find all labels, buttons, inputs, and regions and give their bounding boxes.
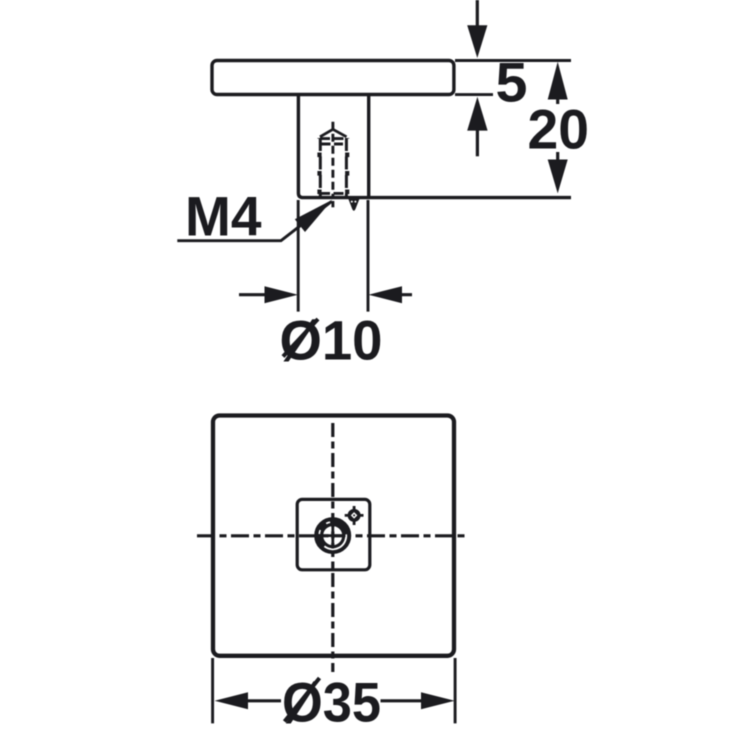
threaded hole ring bbox=[319, 522, 347, 550]
hub square outline bbox=[297, 499, 370, 569]
leader line for M4 bbox=[177, 202, 331, 241]
horizontal centerline of square bbox=[197, 534, 469, 537]
extension line top of plate bbox=[455, 59, 571, 62]
20 dim upper arrow (pointing up) bbox=[548, 62, 568, 104]
leader arrowhead bbox=[295, 200, 333, 232]
svg-text:5: 5 bbox=[496, 51, 528, 114]
Ø10 left arrow (pointing right) bbox=[239, 286, 298, 303]
thread center line tail below stem bbox=[331, 201, 334, 207]
Ø10 right arrow (pointing left) bbox=[369, 286, 413, 303]
thread left dashed line bbox=[319, 138, 322, 196]
stem outline (side view) bbox=[298, 95, 571, 198]
thread bottom line bbox=[320, 192, 347, 195]
top dimension arrow line (5 dim, upper) bbox=[467, 0, 487, 58]
Ø35 right extension line bbox=[454, 658, 457, 723]
thread right tick bumps bbox=[345, 138, 349, 196]
thread right dashed line bbox=[345, 138, 348, 196]
thread top line 2 bbox=[322, 143, 346, 146]
square plate outline (bottom view) bbox=[213, 416, 454, 656]
Ø10 right extension line bbox=[367, 200, 370, 312]
stem right edge bbox=[367, 95, 370, 198]
small screw target symbol bbox=[345, 506, 364, 525]
thread center line (dashed vertical) bbox=[331, 122, 334, 197]
drill point white specks bbox=[351, 201, 353, 203]
vertical centerline of square bbox=[331, 423, 334, 672]
thread left tick bumps bbox=[317, 138, 321, 196]
svg-text:M4: M4 bbox=[185, 184, 262, 247]
svg-text:Ø10: Ø10 bbox=[280, 309, 383, 372]
svg-text:20: 20 bbox=[528, 98, 590, 161]
cross mark in hole bbox=[321, 523, 346, 549]
drill point V below stem bbox=[348, 199, 359, 211]
O-slash extension for Ø35 bbox=[285, 678, 320, 722]
thread top line 1 bbox=[320, 137, 347, 140]
Ø35 left arrow (pointing left) bbox=[215, 692, 281, 709]
svg-text:Ø35: Ø35 bbox=[282, 671, 381, 730]
knob plate outline (side view) bbox=[212, 61, 454, 95]
20 dim lower arrow (pointing down) bbox=[548, 152, 568, 193]
Ø35 right arrow (pointing right) bbox=[381, 692, 455, 709]
5 dim lower arrow (pointing up) bbox=[467, 97, 487, 157]
Ø35 left extension line bbox=[211, 658, 214, 723]
O-slash extension for Ø10 bbox=[283, 319, 318, 357]
extension line bottom of plate (5 dim) bbox=[455, 93, 493, 96]
thread cone tip bbox=[320, 129, 347, 137]
Ø10 left extension line bbox=[297, 200, 300, 312]
